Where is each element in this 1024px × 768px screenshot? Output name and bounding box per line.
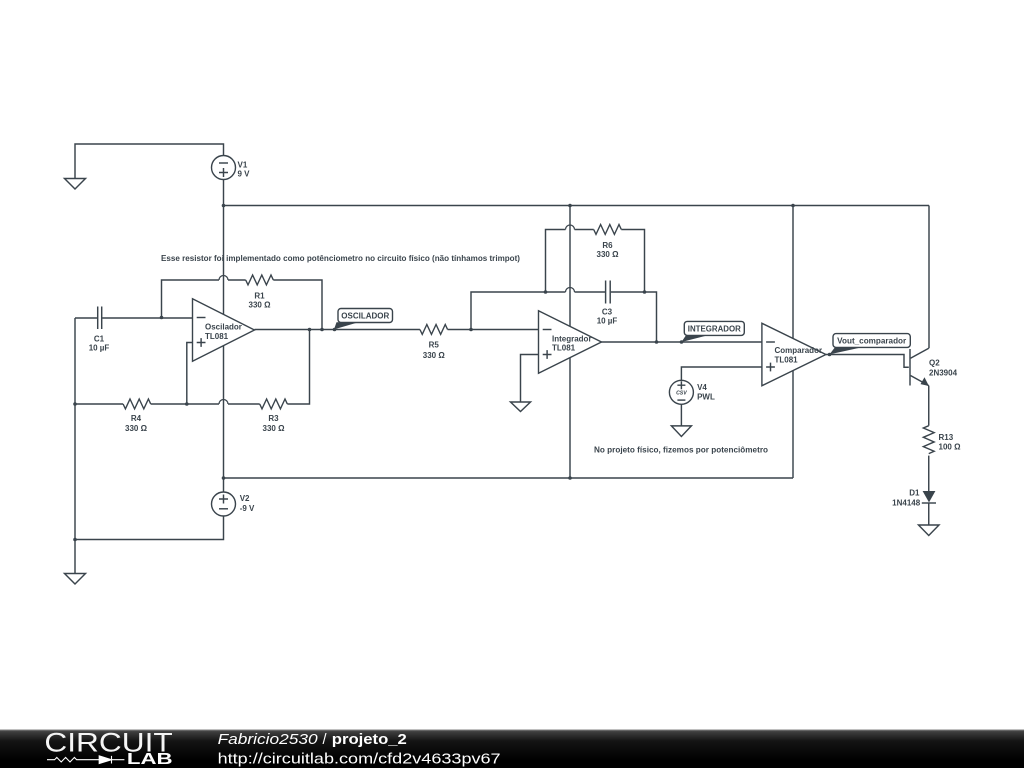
node junction plus riser	[185, 402, 189, 406]
svg-text:10 µF: 10 µF	[89, 343, 110, 352]
svg-text:Fabricio2530: Fabricio2530	[218, 732, 318, 748]
svg-text:Vout_comparador: Vout_comparador	[837, 336, 906, 345]
resistor R1	[246, 275, 274, 310]
svg-text:10 µF: 10 µF	[597, 317, 618, 326]
node junction R3 riser	[308, 328, 312, 332]
svg-text:INTEGRADOR: INTEGRADOR	[688, 324, 741, 333]
voltage source V2	[212, 492, 256, 516]
svg-text:V4: V4	[697, 383, 707, 392]
svg-text:R4: R4	[131, 414, 142, 423]
svg-text:projeto_2: projeto_2	[332, 732, 407, 748]
node junction R5 right	[469, 328, 473, 332]
node junction bottom left corner	[73, 538, 77, 542]
op-amp U2 Integrador	[539, 311, 602, 374]
svg-text:Oscilador: Oscilador	[205, 322, 242, 331]
ground symbol G4	[671, 426, 691, 437]
wire left rail down	[74, 318, 76, 404]
capacitor C1	[89, 307, 110, 353]
wire integrador plus to ground	[521, 355, 539, 403]
node junction top rail x=223.5	[222, 204, 226, 208]
svg-text:TL081: TL081	[775, 355, 799, 364]
voltage source V1	[212, 156, 251, 206]
wire oscilador plus input to R4 row	[187, 343, 193, 405]
wire integrador output row	[602, 341, 762, 343]
svg-text:Integrador: Integrador	[552, 335, 592, 344]
svg-text:2N3904: 2N3904	[929, 369, 958, 378]
svg-text:100 Ω: 100 Ω	[939, 443, 962, 452]
svg-text:-9 V: -9 V	[240, 504, 255, 513]
wire +9V top rail	[224, 205, 930, 207]
wire oscilador V- supply stub to V2	[223, 346, 225, 493]
node INTEGRADOR flag attach	[680, 340, 684, 344]
svg-text:330 Ω: 330 Ω	[249, 301, 272, 310]
wire D1 to ground	[928, 503, 930, 525]
ground symbol G5	[919, 525, 940, 536]
ground symbol G3	[511, 402, 531, 412]
resistor R3	[260, 399, 288, 433]
svg-text:Esse resistor foi implementado: Esse resistor foi implementado como potê…	[161, 254, 520, 263]
svg-text:330 Ω: 330 Ω	[125, 424, 148, 433]
svg-text:TL081: TL081	[552, 343, 576, 352]
node OSCILADOR flag attach	[333, 328, 337, 332]
node junction minus row	[160, 316, 164, 320]
wire V4 to ground	[680, 404, 682, 426]
svg-text:R3: R3	[268, 414, 279, 423]
ground symbol G1	[65, 179, 86, 190]
svg-text:9 V: 9 V	[238, 169, 251, 178]
svg-text:1N4148: 1N4148	[892, 498, 921, 507]
node junction bottom rail x=570	[568, 476, 572, 480]
flag Vout_comparador	[830, 334, 911, 355]
wire integrador V- supply stub	[569, 357, 571, 478]
svg-text:http://circuitlab.com/cfd2v463: http://circuitlab.com/cfd2v4633pv67	[218, 752, 501, 768]
wire hop R6 row over supply stub	[566, 225, 575, 230]
svg-text:LAB: LAB	[127, 751, 173, 768]
svg-text:R6: R6	[602, 241, 613, 250]
resistor R13	[923, 426, 961, 454]
wire oscilador V+ supply stub	[223, 206, 225, 315]
node junction C3 row right	[643, 290, 647, 294]
wire comparador output to Q2 base	[826, 355, 909, 368]
wire comparador plus input to V4	[681, 367, 762, 380]
node Vout_comparador flag attach	[828, 353, 832, 357]
node junction C3 feedback	[655, 340, 659, 344]
svg-text:PWL: PWL	[697, 393, 715, 402]
svg-text:V2: V2	[240, 494, 250, 503]
op-amp U1 Oscilador	[193, 299, 255, 362]
resistor R4	[123, 399, 151, 433]
ground symbol G2	[65, 574, 86, 585]
wire R6 row	[546, 230, 645, 293]
svg-text:CSV: CSV	[676, 390, 687, 396]
resistor R6	[594, 225, 622, 260]
resistor R5	[420, 325, 448, 361]
svg-text:Comparador: Comparador	[775, 346, 823, 355]
svg-text:330 Ω: 330 Ω	[423, 351, 446, 360]
svg-text:330 Ω: 330 Ω	[597, 250, 620, 259]
wire feedback riser to R1 row	[162, 280, 323, 330]
wire bottom -9V rail	[224, 477, 794, 479]
wire hop C3 row over supply stub	[566, 288, 575, 292]
capacitor C3	[597, 281, 618, 326]
wire hop R1 row over supply stub	[219, 276, 228, 281]
svg-text:Q2: Q2	[929, 359, 940, 368]
wire V2 bottom to left rail	[75, 516, 224, 574]
svg-text:TL081: TL081	[205, 332, 229, 341]
svg-text:C1: C1	[94, 335, 105, 344]
svg-text:No projeto físico, fizemos por: No projeto físico, fizemos por potenciôm…	[594, 446, 768, 455]
flag OSCILADOR	[334, 309, 393, 330]
wire left rail lower segment	[74, 404, 76, 540]
node junction R1 riser	[320, 328, 324, 332]
svg-text:OSCILADOR: OSCILADOR	[341, 311, 389, 320]
wire C1 input row	[75, 317, 193, 319]
voltage source V4	[669, 380, 715, 404]
svg-text:R1: R1	[254, 291, 265, 300]
svg-text:D1: D1	[909, 489, 920, 498]
wire C3 row riser and row	[471, 292, 657, 342]
svg-text:V1: V1	[238, 160, 248, 169]
wire hop R4 row over supply stub	[219, 400, 228, 405]
flag INTEGRADOR	[682, 321, 745, 342]
wire Q2 emitter to R13	[928, 386, 930, 426]
wire top-left V1 to ground	[75, 144, 224, 179]
svg-text:R5: R5	[429, 340, 440, 349]
node junction left rail R4 row	[73, 402, 77, 406]
svg-text:R13: R13	[939, 433, 954, 442]
node junction bottom rail x=223.5	[222, 476, 226, 480]
wire integrador V+ supply stub	[569, 206, 571, 328]
op-amp U3 Comparador	[762, 204, 826, 478]
node junction top rail x=570	[568, 204, 572, 208]
wire R4-R3 row	[75, 330, 310, 405]
transistor Q2	[910, 348, 958, 386]
node junction C3 row left	[544, 290, 548, 294]
svg-text:C3: C3	[602, 308, 613, 317]
logo squiggle resistor-diode	[47, 756, 124, 764]
footer bar	[0, 730, 1024, 768]
diode D1	[892, 489, 936, 508]
wire R13 to D1	[928, 456, 930, 491]
wire oscilador output row	[255, 329, 539, 331]
svg-text:330 Ω: 330 Ω	[263, 424, 286, 433]
wire right rail down to Q2 collector	[928, 206, 930, 349]
